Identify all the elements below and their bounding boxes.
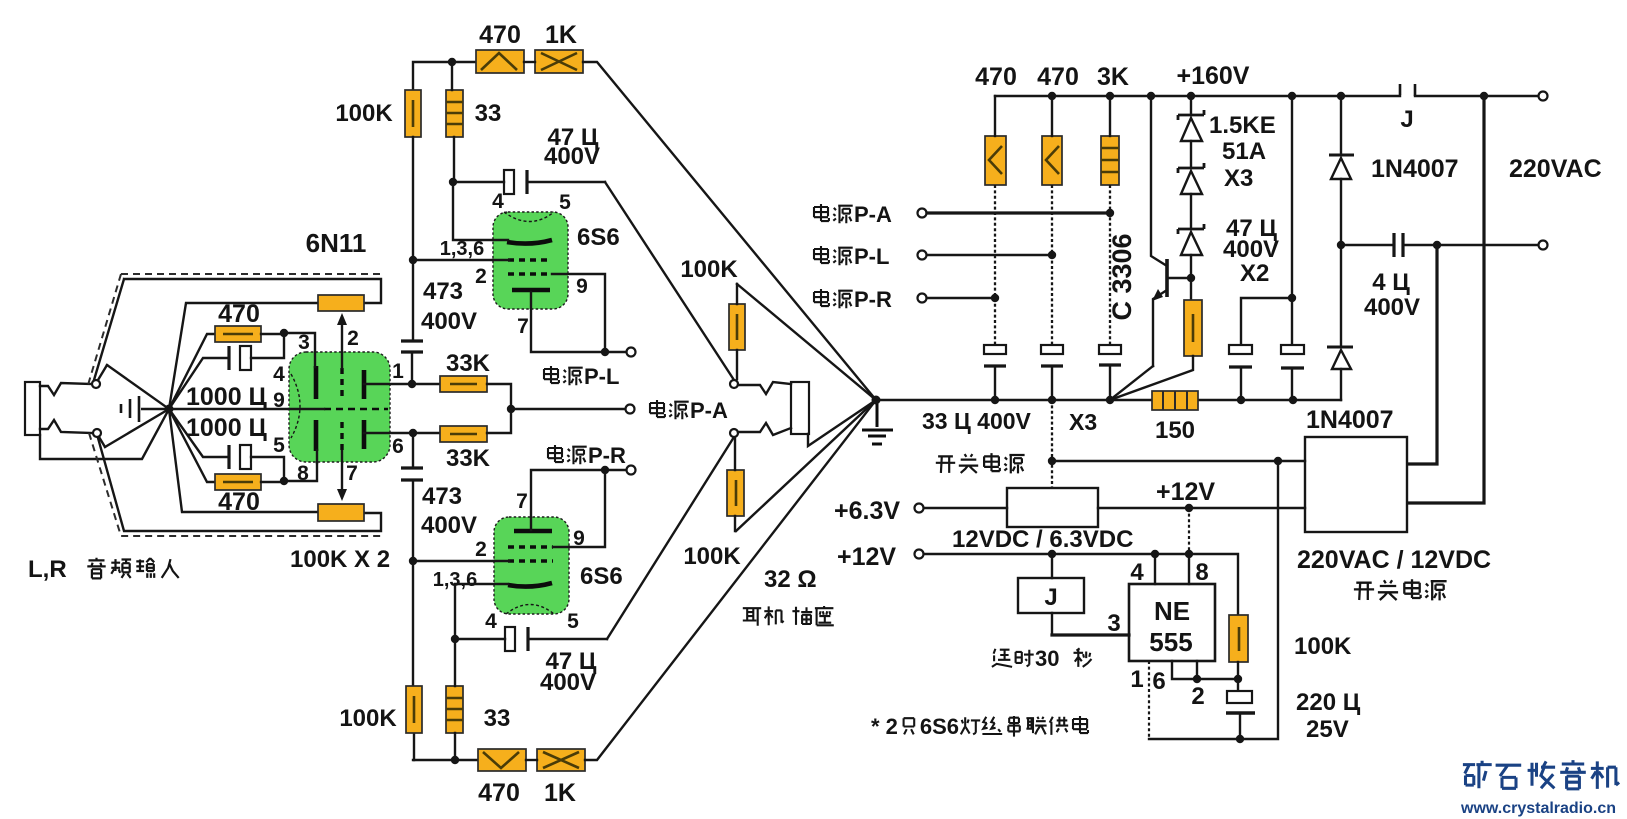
svg-text:C 3306: C 3306 [1107,233,1137,320]
svg-text:6: 6 [1152,668,1165,695]
svg-text:30: 30 [1035,646,1059,671]
resistor 100K jack bottom [727,470,744,516]
wire P-R psu [927,297,995,299]
wire star to capacitor 1000u lower [169,409,229,457]
6N11 triode B plate [362,420,367,449]
wire star to capacitor 1000u upper [169,358,229,409]
svg-text:470: 470 [218,488,260,516]
resistor emitter bias [1184,300,1202,356]
wire grid bottom tube [413,560,509,562]
junction rail 47u cap1 [1237,396,1245,404]
wire 473 top leads [412,260,413,384]
chassis ground symbol [121,396,169,422]
svg-text:5: 5 [559,191,571,214]
capacitor 33u #3 [1099,345,1121,354]
svg-text:P-R: P-R [588,443,626,468]
label kaiguan dianyuan right [1354,583,1374,600]
junction timing node [1234,675,1242,683]
junction pin 2 [1193,675,1201,683]
resistor 1K B+ top [535,50,583,73]
capacitor 47u X2 #1 [1229,345,1252,354]
terminal P-A psu circle [918,209,927,218]
resistor 470 B+ bottom [478,749,526,771]
shield box inner line top [94,279,381,380]
wire 473 bottom leads [412,433,414,561]
junction rail top right [1480,92,1488,100]
wire B+ top rail right [995,95,1539,97]
junction rail 47u cap2 [1289,396,1297,404]
svg-text:X2: X2 [1240,260,1269,287]
junction plate/cap top [449,178,457,186]
junction rail top zener [1187,92,1195,100]
terminal P-A circle [626,405,635,414]
label erji chazuo [743,608,761,626]
wire +6.3V [924,507,1007,509]
junction minus right [1274,457,1282,465]
shield box dashed outline [88,274,383,536]
svg-text:+12V: +12V [1156,478,1215,506]
resistor 470 psu2 [1042,136,1062,185]
svg-text:5: 5 [273,434,285,457]
wire emitter to ground fan [1110,366,1153,400]
svg-text:220VAC: 220VAC [1509,155,1602,183]
wire 6S6 top pin9 [552,274,605,352]
svg-text:400V: 400V [421,308,477,335]
wire 100K jack top leads [736,284,738,379]
wire 100K jack bottom leads [734,437,736,531]
svg-text:5: 5 [567,610,579,633]
label dianyuan P-A psu [814,204,829,221]
wire 6S6 bottom pin7 [531,470,626,530]
junction rail top collector [1147,92,1155,100]
wire between 470 and 1K bottom [526,759,537,761]
wire star to jack arm R [105,409,169,447]
label dianyuan P-R psu [814,289,829,306]
svg-text:1000 Ц: 1000 Ц [186,383,268,411]
junction rail cap2 [1048,396,1056,404]
input jack J-IN body [25,382,40,435]
6S6 bottom dome [506,605,554,615]
wire 33 bottom leads [454,639,456,760]
svg-text:220VAC / 12VDC: 220VAC / 12VDC [1297,546,1491,574]
terminal P-R circle [627,466,636,475]
terminal +6.3V circle [915,504,924,513]
wire star to jack arm L [107,365,169,409]
watermark kuangshi shouyinji [1463,761,1492,789]
svg-text:www.crystalradio.cn: www.crystalradio.cn [1460,800,1616,817]
jack tip contact L [40,383,92,395]
wire grid 1,3,6 top [413,259,509,261]
wire 100K bottom lead [413,561,414,760]
6S6 top dome [504,212,554,222]
6S6 bottom grid row 9 [508,545,553,548]
capacitor 4u 400V [1341,244,1394,246]
box NE555 [1129,584,1215,661]
6N11 pin 7 wire with arrow [341,451,343,492]
jack contact circle L [92,380,100,388]
wire 33K bottom to P-A [487,409,511,433]
zener D1 1.5KE [1190,96,1192,115]
junction rail top diode [1337,92,1345,100]
svg-text:1N4007: 1N4007 [1371,155,1459,183]
svg-text:6N11: 6N11 [306,228,367,258]
svg-text:1,3,6: 1,3,6 [440,238,484,260]
shield box inner line bottom [98,438,381,531]
wire bottom rail [413,759,478,761]
svg-text:470: 470 [478,779,520,807]
svg-text:4: 4 [485,610,497,633]
junction grid lower [280,477,288,485]
junction grid bottom [409,557,417,565]
svg-text:470: 470 [479,21,521,49]
junction 4u line [1337,241,1345,249]
resistor 470 lower [215,474,261,490]
svg-text:L,R: L,R [28,556,67,583]
svg-text:1: 1 [1130,666,1143,693]
svg-text:3: 3 [1107,610,1120,637]
svg-text:P-A: P-A [690,398,728,423]
resistor 100K jack top [729,304,745,350]
wire 1K top to ground hub diagonal [583,62,876,400]
wire B+ top rail left [413,62,476,90]
jack switch arm L [98,365,107,380]
wire 100K bottom apex to hub [736,400,876,531]
transistor C3306 base lead [1167,277,1191,279]
6N11 triode B grid [340,422,343,451]
svg-text:32 Ω: 32 Ω [764,566,817,593]
wire 100K top apex to hub [737,284,876,400]
resistor 100K top shield [318,295,364,311]
svg-text:2: 2 [1191,683,1204,710]
svg-text:33K: 33K [446,350,491,377]
capacitor 33u #2 [1041,345,1063,354]
wire 6S6 top pin7 [531,292,626,352]
resistor 150 [1152,391,1198,410]
junction base [1187,274,1195,282]
svg-text:1N4007: 1N4007 [1306,406,1394,434]
svg-text:3K: 3K [1097,63,1129,91]
junction +12V net [1185,504,1193,512]
phone jack contact circle top [730,380,738,388]
wire pin8 segment inside 6N11 [316,450,318,463]
wire +12V net to 555 supply [1188,508,1190,554]
capacitor 220u 25V [1227,691,1252,703]
wire plate segment inside 6S6 top [493,239,508,241]
svg-text:1: 1 [392,360,404,383]
junction pin8 [1185,550,1193,558]
wire 470 psu2 column [1051,96,1053,136]
label dianyuan P-L psu [814,246,829,263]
6N11 center dashed line pin 9 [324,408,388,411]
box relay J [1018,578,1084,613]
svg-text:470: 470 [218,300,260,328]
svg-text:P-A: P-A [854,202,892,227]
6N11 triode A cathode [314,366,319,399]
wire 47u top to phone jack diagonal [605,182,734,380]
resistor 33 bottom [446,686,463,733]
wire pin 4 [1154,554,1156,584]
ground symbol hub [862,404,893,444]
terminal 220VAC top circle [1539,92,1548,101]
svg-text:P-L: P-L [854,244,889,269]
junction P-L on column2 [1048,251,1056,259]
junction P-R on column1 [991,294,999,302]
wire star to bottom 100K grid resistor [169,409,318,512]
junction plate/cap bottom [451,635,459,643]
wire between 470 and 1K top [524,61,535,63]
wire +12V feed [924,554,1238,615]
wire cap/res lower to 6N11 pin8 [251,451,317,482]
wire star to resistor 470 upper [169,334,216,409]
wire pin 8 [1188,554,1190,584]
6N11 pin 1 wire [364,383,440,385]
svg-text:1K: 1K [545,21,577,49]
capacitor 1000u lower [227,445,230,469]
svg-text:4: 4 [492,190,504,213]
6N11 triode B cathode [314,420,319,451]
junction pin4 [1151,550,1159,558]
svg-text:+6.3V: +6.3V [834,497,900,525]
terminal P-L circle [627,348,636,357]
svg-text:9: 9 [576,275,588,298]
wire jack sleeve to hub [808,400,876,446]
diode 1N4007 upper [1340,96,1342,155]
svg-text:100K: 100K [335,100,393,127]
wire minus drop to 555 ground [1149,461,1278,739]
svg-text:2: 2 [475,265,487,288]
wire ground rail [876,399,1341,401]
6S6 bottom cathode [514,529,552,534]
wire pin 2 [1196,661,1198,679]
capacitor 473 top [401,341,423,352]
junction pin6 coupling [409,429,417,437]
svg-text:X3: X3 [1224,165,1253,192]
wire 3K column [1109,96,1111,136]
junction grid top [409,256,417,264]
wire ground link rail to minus [1051,400,1053,488]
6S6 bottom plate [508,583,552,587]
wire 1K bottom to ground hub diagonal [585,400,876,760]
svg-text:7: 7 [517,315,529,338]
svg-text:1000 Ц: 1000 Ц [186,414,268,442]
svg-text:33K: 33K [446,445,491,472]
svg-text:9: 9 [573,527,585,550]
svg-text:2: 2 [475,538,487,561]
6N11 triode A grid [340,368,343,397]
svg-text:100K: 100K [683,543,741,570]
wire cap/res upper to 6N11 pin3 [251,333,315,366]
label yanshi 30 miao [992,649,1012,667]
svg-text:3: 3 [298,331,310,354]
svg-text:P-L: P-L [584,364,619,389]
switch J mains [1400,84,1415,96]
wire 6S6 bottom pin9 [553,470,605,547]
terminal 220VAC bottom circle [1539,241,1548,250]
svg-text:51A: 51A [1222,138,1266,165]
capacitor 47u 400V top [504,170,514,194]
svg-text:400V: 400V [1223,236,1279,263]
transistor C3306 base bar [1165,259,1169,297]
wire 100K timer bottom [1237,662,1239,691]
svg-text:P-R: P-R [854,287,892,312]
resistor 1K B+ bottom [537,749,585,771]
svg-text:6: 6 [392,435,404,458]
resistor 33K top [440,376,487,392]
wire mains live drop [1408,245,1437,464]
zener D2 1.5KE [1190,141,1192,168]
resistor 470 psu1 [985,136,1006,185]
resistor 100K timer [1229,615,1248,662]
resistor 470 upper [215,326,261,342]
junction P-A on 3K column [1106,209,1114,217]
svg-text:473: 473 [423,278,463,305]
jack tip contact R [40,420,92,433]
capacitor 33u #1 [984,345,1006,354]
6N11 triode A plate [362,370,367,399]
junction J coil [1048,550,1056,558]
transistor C3306 emitter [1153,290,1167,366]
wire star to resistor 470 lower [169,409,216,482]
wire star to 6N11 heater pin 9 [169,408,324,410]
wire 47u cap1 branch [1241,298,1292,345]
junction rail cap1 [991,396,999,404]
6S6 top grid row 1 [508,258,552,261]
wire pin3 segment inside 6N11 [314,352,316,367]
phone jack tip contact top [738,382,791,394]
6S6 top plate [507,240,552,244]
svg-text:100K: 100K [1294,633,1352,660]
svg-text:12VDC / 6.3VDC: 12VDC / 6.3VDC [952,526,1133,553]
junction P-A [507,405,515,413]
capacitor 47u X2 #2 [1281,345,1304,354]
terminal +12V circle [915,550,924,559]
svg-text:6S6: 6S6 [577,224,620,251]
resistor 3K [1101,136,1119,185]
wire 47u bottom leads [455,638,607,640]
label dianyuan P-A [650,400,665,417]
svg-text:4: 4 [1130,559,1144,586]
6N11 pin 6 wire [364,432,440,434]
wire 100K lead to grid junction [412,137,414,260]
jack contact circle R [93,429,101,437]
junction grid upper [280,329,288,337]
resistor 470 B+ top [476,50,524,73]
svg-text:+12V: +12V [837,543,896,571]
svg-text:555: 555 [1149,627,1192,657]
capacitor 47u 400V bottom [505,627,515,651]
svg-text:100K X 2: 100K X 2 [290,546,390,573]
resistor 33 top [446,90,463,137]
6S6 top cathode [512,288,550,293]
svg-text:* 2: * 2 [871,714,898,739]
svg-text:1.5KE: 1.5KE [1209,112,1276,139]
svg-text:25V: 25V [1306,716,1349,743]
resistor 33K bottom [440,426,487,442]
svg-text:400V: 400V [540,669,596,696]
terminal P-L psu circle [918,251,927,260]
label dianyuan P-R [548,445,563,462]
wire P-L psu [927,254,1052,256]
wire 470 psu1 column [994,96,996,136]
svg-text:33: 33 [484,705,511,732]
tube 6N11 envelope [289,352,390,462]
junction P-L [601,348,609,356]
wire +12V net [1098,507,1305,509]
wire 33 leads top [452,62,454,182]
6N11 heater arc [291,374,300,438]
capacitor 473 bottom [401,468,423,480]
junction 4u right [1433,241,1441,249]
svg-text:1K: 1K [544,779,576,807]
svg-text:X3: X3 [1069,409,1097,435]
wire pin9 segment inside 6N11 [289,408,324,410]
svg-text:2: 2 [347,327,359,350]
wire relay J leads [1051,554,1053,635]
transistor C3306 collector [1151,96,1167,266]
junction rail top 47u column [1288,92,1296,100]
capacitor 1000u upper [227,346,230,370]
wire mains neutral drop [1408,96,1484,503]
junction rail 3K branch [1106,396,1114,404]
label kaiguan dianyuan left [936,456,955,473]
node ground hub [872,396,881,405]
junction minus left [1048,457,1056,465]
wire grid segment inside 6S6 top [493,259,509,261]
svg-text:4: 4 [273,363,285,386]
label dianyuan P-L [544,366,559,383]
junction 33 branch top [448,58,456,66]
wire 33K top to P-A [487,384,511,409]
svg-text:6S6: 6S6 [920,714,959,739]
wire 47u column [1291,96,1293,345]
wire pin 6 [1172,661,1238,679]
phone jack contact circle bottom [730,429,738,437]
jack switch arm R [99,437,105,447]
svg-text:100K: 100K [680,256,738,283]
junction rail top 470#2 [1048,92,1056,100]
resistor 100K bottom shield [318,504,364,521]
tube 6S6 top envelope [493,212,568,309]
wire jack sleeve to ground [40,409,169,459]
box 220VAC/12VDC supply [1305,437,1407,532]
wire bias resistor to ground fan [1110,356,1193,400]
6S6 bottom grid row 2 [508,559,553,562]
svg-text:470: 470 [975,63,1017,91]
wire plate feed 6S6 top [453,182,508,240]
diode 1N4007 lower [1327,346,1353,349]
wire relay to 555 pin3 [1052,633,1129,636]
svg-text:220 Ц: 220 Ц [1296,689,1361,716]
wire 47u bottom to phone jack diagonal [607,437,734,639]
tube 6S6 bottom envelope [494,517,569,614]
zener D3 1.5KE [1190,194,1192,229]
box 12VDC/6.3VDC [1007,488,1098,527]
junction 220u ground [1236,735,1244,743]
junction rail top 3K [1106,92,1114,100]
svg-text:8: 8 [297,462,309,485]
6S6 top grid row 2 [508,272,552,275]
wire pin 1 [1148,661,1150,739]
node star ground [165,405,174,414]
wire plate feed 6S6 bottom [455,584,508,639]
resistor 100K plate bottom [406,686,422,733]
svg-text:400V: 400V [544,143,600,170]
junction P-R [601,466,609,474]
svg-text:NE: NE [1154,596,1190,626]
wire grid segment inside 6S6 bottom [494,560,509,562]
phone jack ring contact bottom [738,423,791,435]
junction 33 branch bottom [451,756,459,764]
